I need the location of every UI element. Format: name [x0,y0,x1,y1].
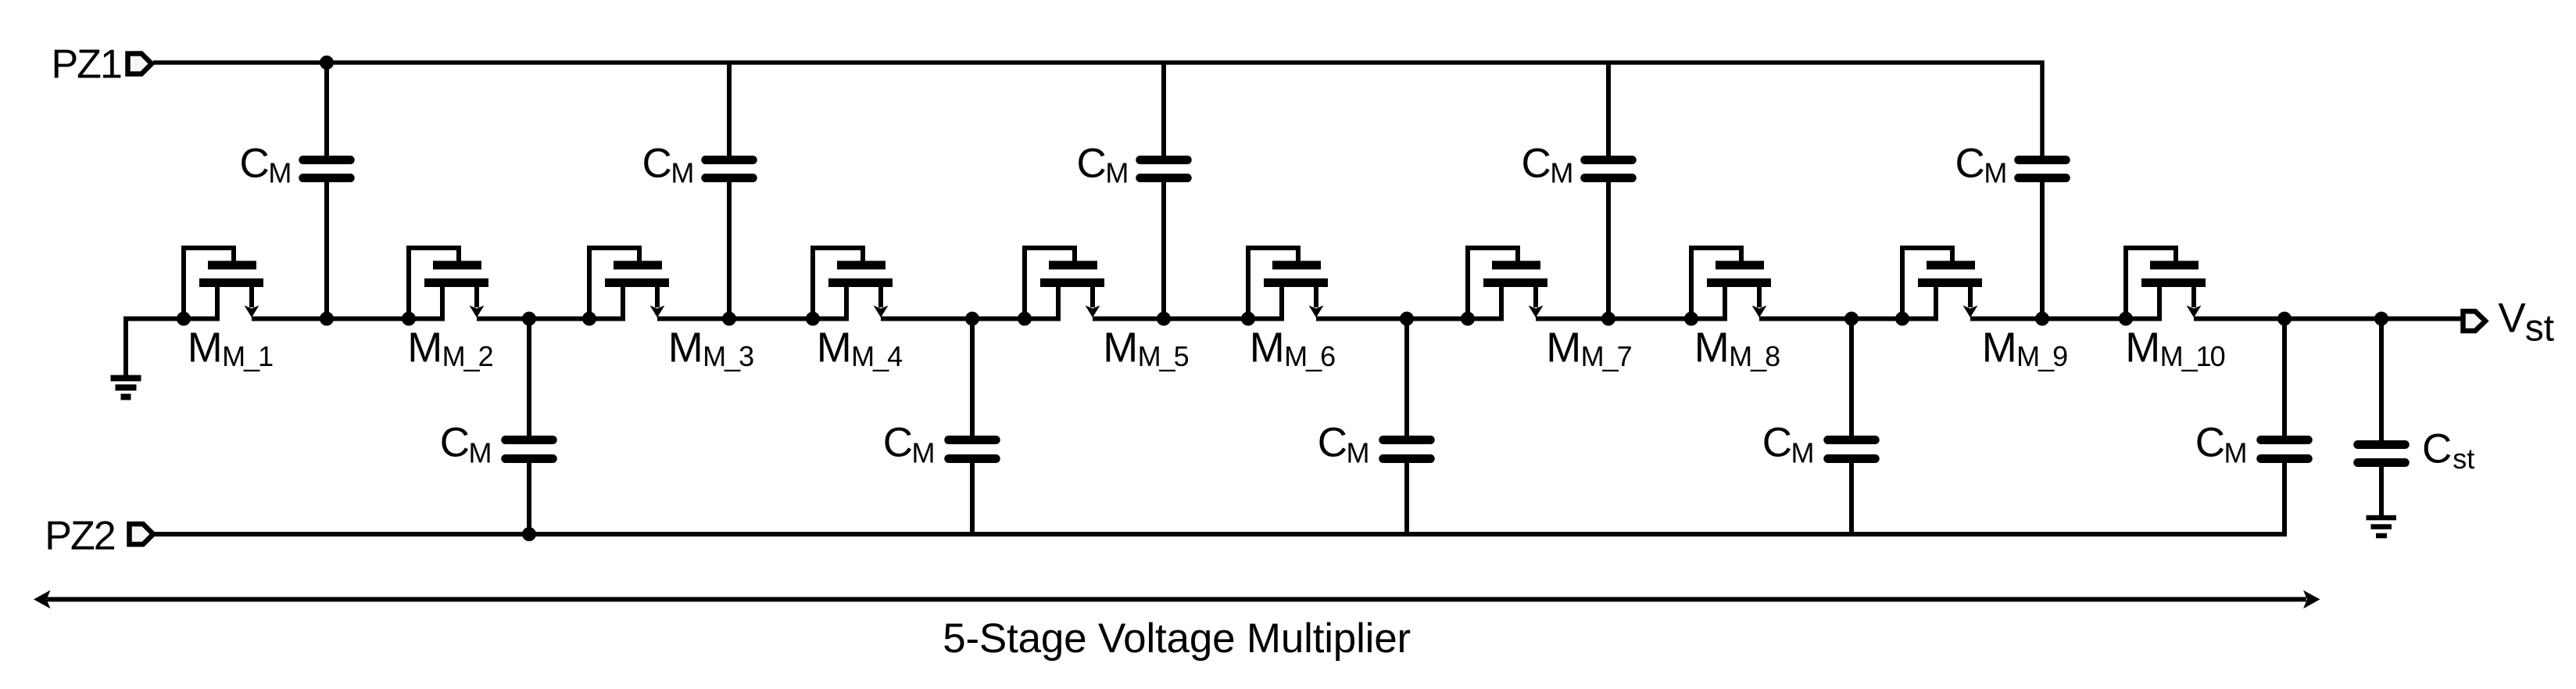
wire: M_M_6 gate feedback horizontal [1246,246,1298,250]
M_M_6 gate bar [1272,261,1321,270]
wire: M_M_4 gate drop [860,246,865,261]
svg-text:st: st [2525,308,2554,350]
svg-text:C: C [883,420,913,466]
wire: M_M_5 drain stub [1090,287,1095,307]
capacitor C_st storage [2358,319,2406,516]
junction dot: node at M_M_6 gate/source [1241,312,1255,326]
wire: node segment M_M_9 drain to M_M_10 source [1970,317,2162,321]
M_M_9 drain arrow [1963,306,1978,318]
wire: C_M top1 lower lead [324,181,329,319]
wire: M_M_5 gate feedback horizontal [1022,246,1075,250]
svg-text:C: C [1077,141,1107,187]
wire: node segment M_M_3 drain to M_M_4 source [657,317,849,321]
wire: M_M_8 source stub [1723,287,1727,321]
wire: M_M_10 gate feedback horizontal [2123,246,2176,250]
wire: M_M_1 gate feedback horizontal [181,246,234,250]
M_M_8 gate bar [1716,261,1764,270]
wire: M_M_10 source stub [2157,287,2162,321]
svg-text:M: M [671,157,694,189]
svg-text:M: M [1347,437,1370,469]
C_M top2 plate 1 [706,156,753,164]
wire: node segment M_M_5 drain to M_M_6 source [1093,317,1284,321]
wire: M_M_1 source stub [215,287,220,321]
svg-text:5-Stage Voltage Multiplier: 5-Stage Voltage Multiplier [943,615,1411,662]
wire: C_M bot1 lower lead [527,462,531,534]
wire: C_M bot2 lower lead [970,462,975,534]
svg-text:M_6: M_6 [1284,340,1335,372]
M_M_6 drain arrow [1309,306,1324,318]
C_st plate 2 [2358,458,2406,467]
junction dot: node at M_M_7 gate/source [1461,312,1475,326]
C_M top1 plate 1 [303,156,351,164]
wire: C_M bot1 upper lead [527,319,531,437]
svg-text:C: C [1318,420,1347,466]
svg-text:M: M [1103,325,1138,371]
C_M bot5 plate 1 [2261,436,2309,444]
wire: M_M_9 gate feedback vertical [1900,246,1905,321]
capacitor C_M top stage 4 [1585,63,1633,319]
svg-text:M: M [1250,325,1285,371]
output terminal V_st [2463,311,2486,331]
wire: M_M_7 gate feedback vertical [1465,246,1470,321]
wire: C_M top3 lower lead [1161,181,1166,319]
capacitor C_M bottom stage 4 [1828,319,1876,535]
wire: M_M_1 gate feedback vertical [181,246,186,321]
junction dot: mid rail node at x=1489 (top C_M tap) [1157,312,1171,326]
M_M_4 channel bar [828,278,893,287]
junction dot: node at M_M_9 gate/source [1895,312,1909,326]
junction dot: mid rail node at x=1800 (bottom C_M tap) [1400,312,1414,326]
wire: C_st upper lead [2379,319,2384,442]
wire: node segment M_M_8 drain to M_M_9 source [1759,317,1938,321]
svg-text:st: st [2453,443,2474,475]
svg-text:M: M [1791,437,1815,469]
wire: M_M_3 gate feedback horizontal [587,246,639,250]
svg-text:M_1: M_1 [222,340,273,372]
C_M top1 plate 2 [303,174,351,182]
input terminal PZ1 [128,54,152,74]
junction dot: node at M_M_10 gate/source [2119,312,2133,326]
C_M bot1 plate 2 [506,454,553,463]
junction dot: bottom rail at C_M bot1 [522,527,536,541]
ground symbol below C_st [2367,518,2397,536]
C_M bot3 plate 2 [1383,454,1431,463]
capacitor C_M bottom stage 5 [2261,319,2309,459]
wire: bottom rail from PZ2 (bends up into C_M10 bottom plate) [152,462,2284,534]
wire: M_M_6 gate feedback vertical [1246,246,1250,321]
input terminal PZ2 [130,524,154,544]
junction dot: node at M_M_8 gate/source [1684,312,1698,326]
svg-text:M: M [1984,157,2007,189]
junction dot: node at M_M_3 gate/source [582,312,596,326]
svg-text:M_10: M_10 [2160,340,2225,372]
M_M_2 drain arrow [470,306,485,318]
capacitor C_M top stage 5 [2019,160,2066,319]
wire: C_M top2 upper lead [727,63,732,156]
capacitor C_M top stage 2 [706,63,753,319]
wire: M_M_10 gate feedback vertical [2123,246,2128,321]
svg-text:M_9: M_9 [2016,340,2067,372]
wire: M_M_4 drain stub [878,287,883,307]
wire: M_M_8 gate feedback horizontal [1689,246,1741,250]
wire: C_M bot5 upper lead [2282,319,2287,437]
transistor M_M_6 (diode-connected NMOS) [1241,246,1328,326]
svg-text:C: C [1522,141,1551,187]
wire: C_M top4 lower lead [1606,181,1611,319]
svg-text:M: M [188,325,223,371]
wire: M_M_10 gate drop [2173,246,2178,261]
wire: M_M_9 gate feedback horizontal [1900,246,1952,250]
C_M top4 plate 1 [1585,156,1633,164]
C_M top3 plate 2 [1140,174,1188,182]
wire: M_M_3 gate feedback vertical [587,246,592,321]
svg-text:C: C [440,420,470,466]
svg-text:PZ2: PZ2 [45,513,114,558]
M_M_7 drain arrow [1529,306,1544,318]
wire: node segment M_M_2 drain to M_M_3 source [477,317,625,321]
dimension arrow spanning the 5 stages [34,590,2320,609]
C_M top5 plate 1 [2019,156,2066,164]
C_M bot2 plate 1 [949,436,996,444]
wire: M_M_3 source stub [621,287,625,321]
wire: M_M_3 drain stub [655,287,660,307]
svg-text:V: V [2498,296,2526,342]
M_M_3 gate bar [614,261,662,270]
C_M top3 plate 1 [1140,156,1188,164]
capacitor C_M bottom stage 3 [1383,319,1431,535]
wire: top rail from PZ1 (bends down into C_M5 top plate) [153,63,2042,156]
svg-text:M: M [1550,157,1573,189]
wire: M_M_7 gate drop [1515,246,1520,261]
M_M_3 channel bar [605,278,669,287]
svg-text:M_7: M_7 [1581,340,1632,372]
C_M bot1 plate 1 [506,436,553,444]
svg-text:PZ1: PZ1 [52,41,121,87]
junction dot: mid rail node at x=2923 (bottom C_M tap) [2277,312,2292,326]
wire: M_M_5 gate feedback vertical [1022,246,1027,321]
M_M_10 drain arrow [2187,306,2202,318]
svg-text:M: M [469,437,492,469]
wire: M_M_10 drain stub [2191,287,2196,307]
transistor M_M_5 (diode-connected NMOS) [1018,246,1104,326]
wire: M_M_8 gate feedback vertical [1689,246,1694,321]
C_M top4 plate 2 [1585,174,1633,182]
svg-text:M_3: M_3 [703,340,753,372]
M_M_10 channel bar [2141,278,2206,287]
junction dot: mid rail node at x=1244 (bottom C_M tap) [965,312,979,326]
wire: M_M_2 source stub [440,287,445,321]
M_M_8 channel bar [1707,278,1771,287]
wire: M_M_1 gate drop [231,246,236,261]
wire: M_M_6 gate drop [1296,246,1301,261]
wire: C_M bot3 lower lead [1404,462,1409,534]
junction dot: mid rail at C_st tap [2374,312,2388,326]
wire: M_M_2 drain stub [474,287,479,307]
wire: C_M top5 lower lead [2040,181,2045,319]
wire: C_M top2 lower lead [727,181,732,319]
C_M bot3 plate 1 [1383,436,1431,444]
svg-text:M_2: M_2 [442,340,493,372]
svg-text:M: M [268,157,292,189]
junction dot: node at M_M_5 gate/source [1018,312,1032,326]
wire: node segment M_M_4 drain to M_M_5 source [881,317,1061,321]
wire: C_st lower lead [2379,466,2384,515]
svg-text:M_4: M_4 [851,340,902,372]
wire: M_M_7 gate feedback horizontal [1465,246,1518,250]
wire: M_M_2 gate drop [456,246,461,261]
wire: M_M_7 source stub [1499,287,1504,321]
transistor M_M_10 (diode-connected NMOS) [2119,246,2206,326]
transistor M_M_9 (diode-connected NMOS) [1895,246,1982,326]
wire: M_M_5 source stub [1056,287,1061,321]
transistor M_M_1 (diode-connected NMOS) [177,246,263,326]
C_M bot5 plate 2 [2261,454,2309,463]
M_M_6 channel bar [1264,278,1328,287]
junction dot: top rail at C_M top1 [320,56,334,70]
wire: C_M bot4 lower lead [1849,462,1854,534]
M_M_4 gate bar [837,261,885,270]
C_st plate 1 [2358,440,2406,449]
wire: M_M_2 gate feedback vertical [406,246,411,321]
M_M_1 drain arrow [245,306,259,318]
svg-text:M: M [1546,325,1581,371]
svg-text:M: M [668,325,703,371]
junction dot: mid rail node at x=2613 (top C_M tap) [2035,312,2049,326]
svg-text:M: M [407,325,442,371]
wire: C_M bot3 upper lead [1404,319,1409,437]
wire: M_M_9 source stub [1934,287,1938,321]
transistor M_M_4 (diode-connected NMOS) [806,246,893,326]
wire: M_M_1 drain stub [249,287,254,307]
C_M top2 plate 2 [706,174,753,182]
M_M_3 drain arrow [650,306,665,318]
wire: M_M_8 drain stub [1757,287,1762,307]
M_M_9 channel bar [1918,278,1982,287]
svg-text:C: C [642,141,672,187]
M_M_8 drain arrow [1752,306,1767,318]
M_M_1 channel bar [199,278,263,287]
M_M_5 channel bar [1040,278,1104,287]
svg-text:C: C [1762,420,1792,466]
M_M_10 gate bar [2150,261,2199,270]
M_M_1 gate bar [208,261,256,270]
wire: node segment M_M_7 drain to M_M_8 source [1536,317,1727,321]
junction dot: node at M_M_1 gate/source [177,312,191,326]
wire: C_M top3 upper lead [1161,63,1166,156]
M_M_9 gate bar [1927,261,1975,270]
C_M bot4 plate 2 [1828,454,1876,463]
svg-text:C: C [1955,141,1985,187]
svg-text:C: C [2422,426,2452,472]
junction dot: mid rail node at x=677 (bottom C_M tap) [522,312,536,326]
junction dot: mid rail node at x=2369 (bottom C_M tap) [1844,312,1859,326]
wire: M_M_4 gate feedback vertical [810,246,815,321]
svg-text:C: C [240,141,270,187]
M_M_4 drain arrow [874,306,889,318]
transistor M_M_7 (diode-connected NMOS) [1461,246,1547,326]
C_M top5 plate 2 [2019,174,2066,182]
junction dot: mid rail node at x=418 (top C_M tap) [320,312,334,326]
wire: C_M bot2 upper lead [970,319,975,437]
svg-text:M: M [1982,325,2017,371]
svg-text:M: M [912,437,936,469]
wire: M_M_8 gate drop [1739,246,1744,261]
wire: M_M_9 gate drop [1950,246,1955,261]
capacitor C_M top stage 3 [1140,63,1188,319]
svg-text:M: M [2125,325,2160,371]
wire: node segment M_M_6 drain to M_M_7 source [1316,317,1504,321]
C_M bot4 plate 1 [1828,436,1876,444]
M_M_5 drain arrow [1086,306,1100,318]
wire: M_M_4 source stub [844,287,849,321]
wire: node segment M_M_10 drain to V_st terminal [2194,317,2463,321]
C_M bot2 plate 2 [949,454,996,463]
M_M_7 gate bar [1492,261,1540,270]
capacitor C_M bottom stage 1 [506,319,553,535]
M_M_7 channel bar [1483,278,1547,287]
junction dot: mid rail node at x=933 (top C_M tap) [722,312,736,326]
svg-text:M: M [2224,437,2248,469]
M_M_2 channel bar [424,278,488,287]
wire: node segment from ground bend to M_M_1 source stub [126,319,220,377]
M_M_5 gate bar [1049,261,1097,270]
wire: M_M_9 drain stub [1968,287,1973,307]
wire: C_M bot4 upper lead [1849,319,1854,437]
transistor M_M_2 (diode-connected NMOS) [402,246,488,326]
ground symbol at M_M_1 source [111,379,141,397]
svg-text:M_8: M_8 [1729,340,1780,372]
junction dot: node at M_M_2 gate/source [402,312,416,326]
svg-text:M: M [1105,157,1129,189]
capacitor C_M top stage 1 [303,63,351,319]
capacitor C_M bottom stage 2 [949,319,996,535]
wire: M_M_2 gate feedback horizontal [406,246,459,250]
wire: node segment M_M_1 drain to M_M_2 source [252,317,445,321]
svg-text:C: C [2195,420,2225,466]
junction dot: node at M_M_4 gate/source [806,312,820,326]
wire: C_M top4 upper lead [1606,63,1611,156]
svg-text:M_5: M_5 [1138,340,1189,372]
wire: C_M top1 upper lead [324,63,329,156]
wire: M_M_7 drain stub [1533,287,1538,307]
wire: M_M_6 drain stub [1314,287,1318,307]
transistor M_M_8 (diode-connected NMOS) [1684,246,1771,326]
wire: M_M_6 source stub [1279,287,1284,321]
junction dot: mid rail node at x=2058 (top C_M tap) [1601,312,1615,326]
svg-text:M: M [1694,325,1730,371]
wire: M_M_5 gate drop [1072,246,1077,261]
svg-text:M: M [817,325,852,371]
M_M_2 gate bar [433,261,481,270]
wire: M_M_3 gate drop [637,246,642,261]
wire: M_M_4 gate feedback horizontal [810,246,863,250]
transistor M_M_3 (diode-connected NMOS) [582,246,669,326]
